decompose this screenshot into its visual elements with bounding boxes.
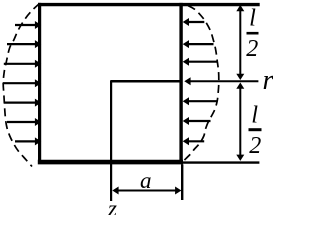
upper l/2 dimension line	[236, 5, 244, 80]
z axis line / inner square left edge	[110, 80, 112, 201]
right load arrow 2	[183, 40, 214, 48]
svg-text:z: z	[107, 196, 117, 215]
inner square top edge	[111, 80, 183, 82]
r arrow shaft	[190, 80, 259, 82]
right load arrow 3	[183, 58, 218, 66]
lower fraction bar	[249, 128, 262, 131]
plate left edge	[38, 3, 41, 163]
right load arrow 6	[183, 137, 205, 145]
plate right edge	[179, 3, 182, 164]
left load arrow 3	[4, 60, 41, 68]
plate bottom edge (thick)	[38, 160, 183, 165]
svg-text:2: 2	[246, 36, 258, 62]
right dashed load curve	[184, 6, 219, 161]
upper fraction bar	[247, 32, 259, 35]
svg-text:l: l	[249, 4, 256, 31]
r arrowhead on mid-line	[184, 77, 190, 85]
left load arrow 2	[7, 40, 41, 48]
svg-text:r: r	[263, 65, 274, 96]
right edge extension below plate	[181, 164, 183, 200]
right load arrow 1	[183, 18, 205, 26]
svg-text:a: a	[140, 168, 152, 193]
left load arrow 6	[7, 118, 41, 126]
left load arrow 5	[4, 99, 41, 107]
left load arrow 1	[15, 21, 41, 29]
right load arrow 4	[183, 97, 217, 105]
left load arrow 4	[3, 79, 41, 87]
svg-text:2: 2	[249, 133, 261, 159]
left load arrow 7	[15, 137, 41, 145]
svg-text:l: l	[251, 101, 258, 128]
plate top edge	[38, 3, 260, 6]
right load arrow 5	[183, 117, 211, 125]
left dashed load curve	[3, 4, 39, 167]
a dimension arrow	[112, 187, 181, 195]
bottom extension line	[183, 161, 259, 163]
lower l/2 dimension line	[236, 83, 244, 161]
